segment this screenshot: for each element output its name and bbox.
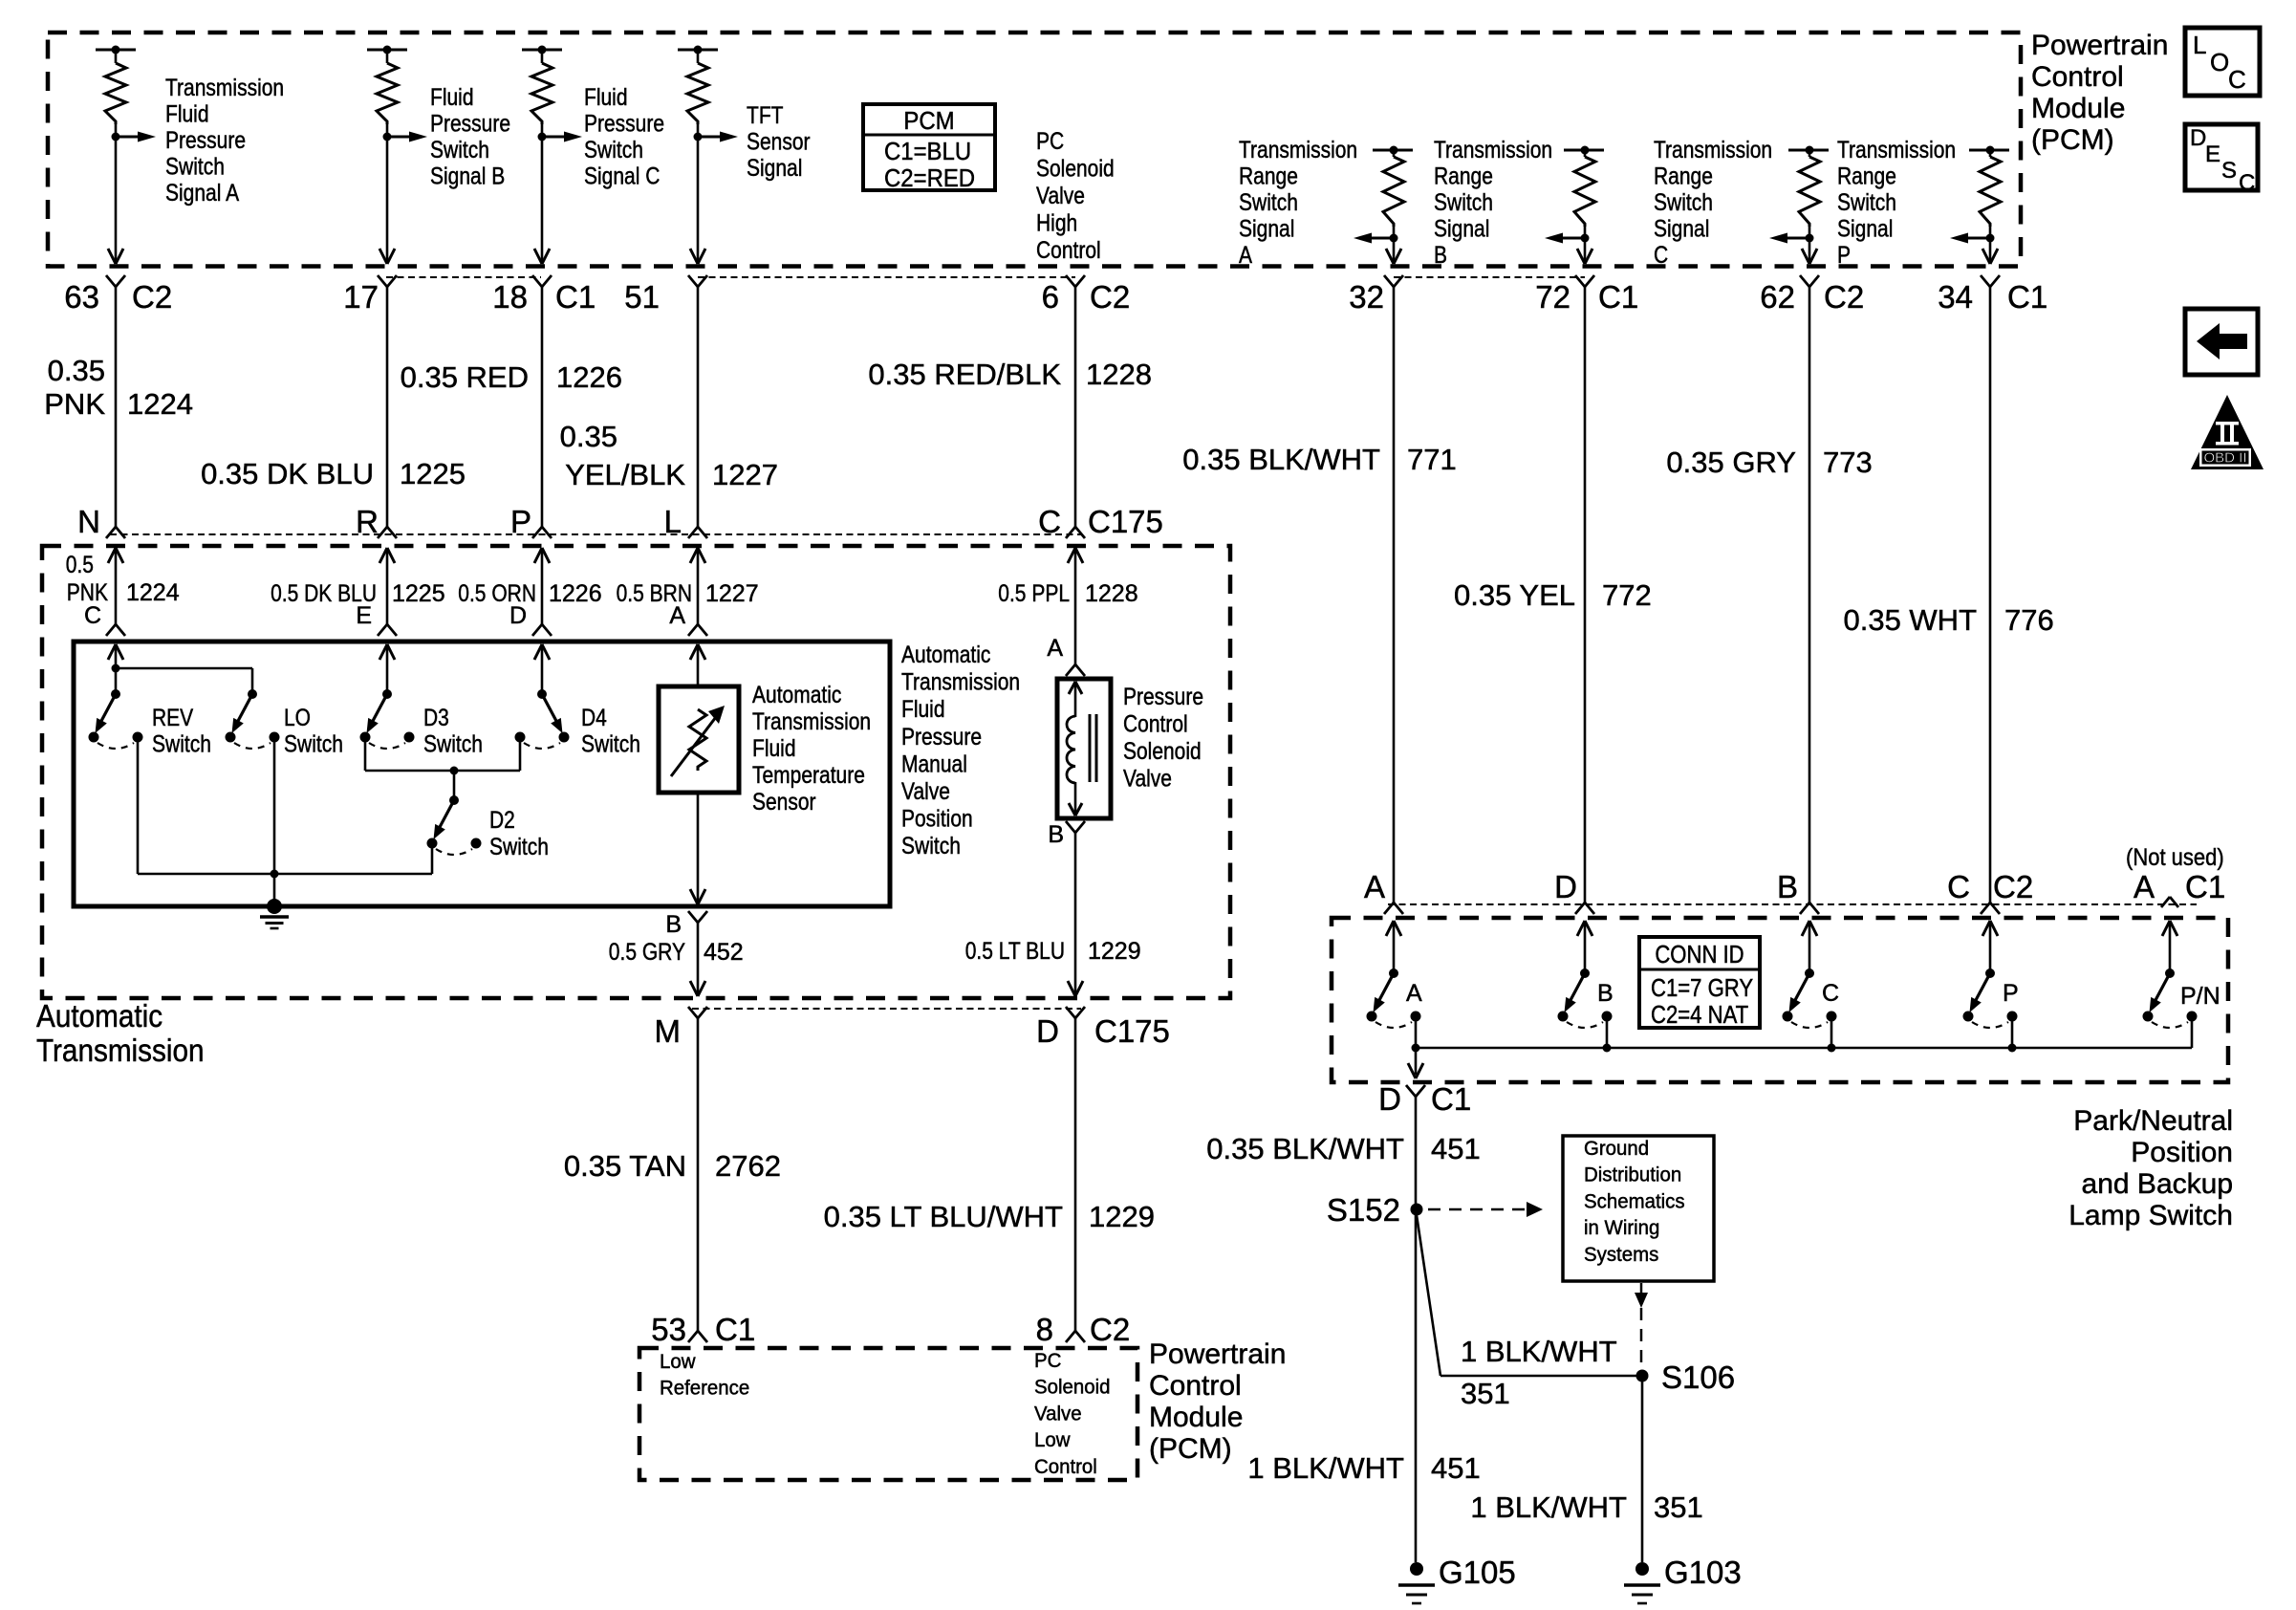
ground distribution schematics reference box <box>1563 1136 1714 1281</box>
pointer arrow to signal B label <box>387 136 412 139</box>
svg-text:63: 63 <box>64 279 99 315</box>
svg-text:1227: 1227 <box>712 458 778 491</box>
resistor R3 transmission fluid pressure switch signal C <box>522 49 562 52</box>
node junction wire9 <box>1986 234 1995 243</box>
wire 1225 into automatic transmission <box>379 548 387 563</box>
wire 776 PCM to park/neutral switch <box>1989 287 1992 903</box>
svg-text:Pressure: Pressure <box>430 111 510 138</box>
svg-text:D: D <box>509 602 527 629</box>
node junction wire6 <box>1390 234 1398 243</box>
pointer arrow left wire8 <box>1785 237 1809 240</box>
svg-text:Sensor: Sensor <box>752 789 816 816</box>
wire 1225 PCM to C175 <box>386 287 389 527</box>
svg-text:C: C <box>2228 65 2246 94</box>
svg-text:and Backup: and Backup <box>2082 1168 2233 1200</box>
svg-text:Fluid: Fluid <box>430 84 474 111</box>
svg-text:Switch: Switch <box>1654 189 1713 216</box>
wire TFT to pin B <box>697 793 700 903</box>
REV switch <box>111 689 120 699</box>
connector line park/neutral switch <box>1388 903 2197 905</box>
svg-text:1228: 1228 <box>1086 358 1152 391</box>
resistor R1 transmission fluid pressure switch signal A <box>96 49 136 52</box>
wire 1229 solenoid to C175 <box>1066 821 1075 833</box>
svg-text:PCM: PCM <box>903 106 954 135</box>
svg-text:Range: Range <box>1434 163 1493 190</box>
svg-text:C: C <box>84 602 101 629</box>
svg-text:34: 34 <box>1938 279 1973 315</box>
connector pin 18 C1 <box>532 275 542 287</box>
D2 switch <box>449 795 459 805</box>
svg-text:Switch: Switch <box>152 731 211 758</box>
wire switch C to bus <box>1830 1019 1833 1048</box>
wire into park/neutral switch B <box>1577 921 1585 936</box>
svg-text:0.35: 0.35 <box>560 420 617 453</box>
svg-text:A: A <box>669 602 685 629</box>
connector pin 32 <box>1384 275 1394 287</box>
wire 1224 inside PCM <box>115 137 118 264</box>
LO switch <box>248 689 257 699</box>
svg-text:C2: C2 <box>1993 869 2033 904</box>
node splice S152 <box>1411 1204 1423 1216</box>
svg-text:L: L <box>2193 31 2206 59</box>
svg-text:B: B <box>1434 242 1447 269</box>
PCM powertrain control module dashed box (top) <box>48 33 2021 267</box>
svg-text:E: E <box>356 602 372 629</box>
svg-text:Switch: Switch <box>584 137 643 163</box>
thermistor element TFT <box>689 709 706 771</box>
svg-text:Sensor: Sensor <box>747 129 811 156</box>
svg-text:Automatic: Automatic <box>752 682 841 708</box>
wire into park/neutral switch C <box>1802 921 1809 936</box>
svg-text:O: O <box>2210 48 2229 76</box>
svg-text:(PCM): (PCM) <box>2031 124 2114 156</box>
svg-text:Transmission: Transmission <box>165 75 284 101</box>
svg-text:1 BLK/WHT: 1 BLK/WHT <box>1247 1451 1404 1485</box>
wire 451 to S152 <box>1415 1097 1418 1562</box>
pointer arrow to signal C label <box>542 136 567 139</box>
park/neutral switch P <box>1985 968 1995 978</box>
resistor R5 transmission range switch signal A <box>1373 149 1413 152</box>
wire pin A into position switch box <box>690 644 698 660</box>
svg-text:Signal A: Signal A <box>165 180 239 207</box>
Automatic Transmission dashed box <box>42 546 1230 998</box>
solenoid core bars <box>1089 714 1092 782</box>
svg-text:P: P <box>1837 242 1851 269</box>
svg-text:REV: REV <box>152 705 193 731</box>
svg-text:Switch: Switch <box>901 833 961 859</box>
svg-text:Switch: Switch <box>423 731 483 758</box>
Park/Neutral Position switch dashed box <box>1332 918 2228 1082</box>
svg-text:Fluid: Fluid <box>901 696 945 723</box>
PCM powertrain control module dashed box (bottom) <box>639 1348 1137 1480</box>
svg-text:451: 451 <box>1431 1132 1481 1165</box>
svg-text:S106: S106 <box>1661 1360 1735 1395</box>
svg-text:Powertrain: Powertrain <box>1149 1338 1286 1370</box>
svg-text:Low: Low <box>660 1350 696 1373</box>
svg-text:N: N <box>77 504 100 539</box>
wire REV output <box>137 742 140 874</box>
wire into park/neutral switch A <box>1386 921 1394 936</box>
svg-text:Transmission: Transmission <box>1239 137 1357 163</box>
svg-text:1226: 1226 <box>549 580 602 607</box>
svg-text:C: C <box>1654 242 1668 269</box>
ground G105 <box>1410 1562 1423 1576</box>
svg-text:Pressure: Pressure <box>584 111 664 138</box>
svg-text:Module: Module <box>1149 1402 1243 1433</box>
svg-text:Control: Control <box>2031 61 2124 93</box>
resistor R6 transmission range switch signal B <box>1564 149 1604 152</box>
node ground bus junction <box>271 870 279 879</box>
svg-text:CONN ID: CONN ID <box>1655 940 1744 968</box>
svg-text:C: C <box>1947 869 1970 904</box>
svg-text:Solenoid: Solenoid <box>1034 1376 1111 1399</box>
svg-text:1224: 1224 <box>127 387 193 421</box>
svg-text:D: D <box>1554 869 1577 904</box>
svg-text:Automatic: Automatic <box>36 998 162 1033</box>
svg-text:Ground: Ground <box>1584 1137 1649 1160</box>
svg-text:C1: C1 <box>715 1312 755 1347</box>
pointer arrow left wire9 <box>1965 237 1990 240</box>
svg-text:B: B <box>1777 869 1798 904</box>
svg-text:Control: Control <box>1149 1370 1242 1402</box>
wire 773 PCM to park/neutral switch <box>1809 287 1811 903</box>
svg-text:Park/Neutral: Park/Neutral <box>2073 1105 2233 1137</box>
svg-text:0.35 TAN: 0.35 TAN <box>564 1149 686 1183</box>
svg-text:Switch: Switch <box>1239 189 1298 216</box>
svg-text:C2: C2 <box>132 279 172 315</box>
park/neutral switch B <box>1580 968 1590 978</box>
svg-text:(Not used): (Not used) <box>2126 844 2224 871</box>
svg-text:A: A <box>1239 242 1252 269</box>
wire 1227 PCM to C175 <box>697 287 700 527</box>
svg-text:D2: D2 <box>489 807 515 834</box>
svg-text:Systems: Systems <box>1584 1243 1658 1266</box>
svg-text:Switch: Switch <box>1837 189 1896 216</box>
wire S106 to G103 <box>1641 1376 1644 1562</box>
wire branch to LO switch <box>116 667 252 670</box>
svg-text:Transmission: Transmission <box>752 708 871 735</box>
node splice S106 <box>1636 1370 1649 1382</box>
svg-text:Signal: Signal <box>1837 216 1893 243</box>
node junction wire8 <box>1806 234 1814 243</box>
connector pin 6 C2 <box>1066 275 1075 287</box>
park/neutral switch A <box>1389 968 1398 978</box>
svg-text:Fluid: Fluid <box>752 735 796 762</box>
DESC icon box <box>2185 124 2258 190</box>
svg-text:C175: C175 <box>1094 1013 1170 1049</box>
svg-text:R: R <box>356 504 379 539</box>
svg-text:C175: C175 <box>1088 504 1163 539</box>
wire switch B to bus <box>1606 1019 1609 1048</box>
svg-text:0.35 DK BLU: 0.35 DK BLU <box>201 457 374 490</box>
svg-text:G105: G105 <box>1439 1555 1516 1590</box>
svg-text:Switch: Switch <box>1434 189 1493 216</box>
svg-text:1 BLK/WHT: 1 BLK/WHT <box>1470 1490 1627 1524</box>
svg-text:PC: PC <box>1034 1349 1061 1372</box>
svg-text:Valve: Valve <box>901 778 950 805</box>
svg-text:D4: D4 <box>581 705 607 731</box>
svg-text:D: D <box>1036 1013 1059 1049</box>
svg-text:0.35 GRY: 0.35 GRY <box>1666 446 1796 479</box>
CONN ID note box <box>1639 937 1760 1028</box>
svg-text:8: 8 <box>1036 1312 1053 1347</box>
node REV/LO branch <box>112 664 120 673</box>
svg-text:0.5: 0.5 <box>66 552 94 578</box>
svg-text:Control: Control <box>1034 1455 1097 1478</box>
svg-text:D: D <box>2190 125 2206 151</box>
wire D4 output <box>519 742 522 771</box>
svg-text:772: 772 <box>1602 578 1652 612</box>
svg-text:A: A <box>1047 635 1063 662</box>
svg-text:0.35: 0.35 <box>48 354 105 387</box>
wire 772 inside PCM <box>1584 238 1587 264</box>
svg-text:0.35 BLK/WHT: 0.35 BLK/WHT <box>1182 443 1380 476</box>
transmission fluid pressure manual valve position switch box <box>74 642 890 906</box>
node junction wire2 <box>383 133 392 141</box>
svg-text:1 BLK/WHT: 1 BLK/WHT <box>1461 1335 1617 1368</box>
pointer arrow left wire6 <box>1369 237 1394 240</box>
svg-text:Module: Module <box>2031 93 2125 124</box>
svg-text:YEL/BLK: YEL/BLK <box>565 458 685 491</box>
wire D2 output <box>431 848 434 874</box>
svg-text:1224: 1224 <box>126 579 180 606</box>
connector pin D C175 <box>1066 1007 1075 1018</box>
svg-text:C2=4 NAT: C2=4 NAT <box>1651 1000 1748 1029</box>
svg-text:1226: 1226 <box>556 360 622 394</box>
svg-text:Transmission: Transmission <box>1837 137 1956 163</box>
solenoid wire and arrows <box>1069 682 1075 694</box>
svg-text:1229: 1229 <box>1088 938 1141 965</box>
svg-text:Low: Low <box>1034 1428 1071 1451</box>
connector C175 line (upper) <box>110 533 1081 535</box>
connector line pins 51-6 <box>698 276 1075 278</box>
svg-text:Signal C: Signal C <box>584 163 660 190</box>
svg-text:0.35 BLK/WHT: 0.35 BLK/WHT <box>1206 1132 1404 1165</box>
resistor R7 transmission range switch signal C <box>1788 149 1829 152</box>
svg-text:0.5 GRY: 0.5 GRY <box>609 939 685 966</box>
wire 1226 into automatic transmission <box>534 548 542 563</box>
svg-text:C1=7 GRY: C1=7 GRY <box>1651 973 1753 1002</box>
svg-text:C: C <box>1038 504 1061 539</box>
svg-text:B: B <box>1597 980 1614 1007</box>
thermistor arrow <box>671 713 719 776</box>
svg-text:P/N: P/N <box>2180 983 2220 1010</box>
svg-text:PNK: PNK <box>44 387 105 421</box>
svg-text:Signal B: Signal B <box>430 163 505 190</box>
svg-text:0.35 RED/BLK: 0.35 RED/BLK <box>868 358 1061 391</box>
svg-text:452: 452 <box>704 939 744 966</box>
svg-text:Control: Control <box>1123 711 1188 738</box>
svg-text:Solenoid: Solenoid <box>1036 156 1115 183</box>
wire 772 PCM to park/neutral switch <box>1584 287 1587 903</box>
svg-text:Fluid: Fluid <box>584 84 628 111</box>
svg-text:C1: C1 <box>2007 279 2047 315</box>
svg-text:Switch: Switch <box>581 731 640 758</box>
connector pin 34 C1 <box>1981 275 1990 287</box>
svg-text:Transmission: Transmission <box>1434 137 1552 163</box>
node junction wire3 <box>538 133 547 141</box>
svg-text:B: B <box>665 911 682 938</box>
svg-text:Automatic: Automatic <box>901 642 990 668</box>
wire pin C into position switch box <box>108 644 116 660</box>
connector pin 62 C2 <box>1800 275 1809 287</box>
svg-text:451: 451 <box>1431 1451 1481 1485</box>
node bus junction P <box>2008 1044 2017 1053</box>
svg-text:Temperature: Temperature <box>752 762 865 789</box>
svg-text:(PCM): (PCM) <box>1149 1433 1232 1465</box>
wire S152 branch to S106 <box>1417 1215 1440 1376</box>
svg-text:62: 62 <box>1760 279 1795 315</box>
svg-text:C1: C1 <box>2185 869 2225 904</box>
node bus junction C <box>1828 1044 1836 1053</box>
svg-text:Transmission: Transmission <box>36 1033 205 1068</box>
svg-text:Signal: Signal <box>1239 216 1294 243</box>
svg-text:18: 18 <box>492 279 528 315</box>
unused pin chevron <box>2161 897 2170 907</box>
svg-text:0.35 YEL: 0.35 YEL <box>1454 578 1575 612</box>
svg-text:L: L <box>664 504 682 539</box>
wire 1228 into automatic transmission <box>1068 548 1075 563</box>
resistor R8 transmission range switch signal P <box>1969 149 2009 152</box>
svg-text:Transmission: Transmission <box>1654 137 1772 163</box>
svg-text:Reference: Reference <box>660 1377 749 1400</box>
svg-text:G103: G103 <box>1664 1555 1742 1590</box>
wire 776 inside PCM <box>1989 238 1992 264</box>
connector pin M at C175 <box>688 1007 698 1018</box>
node bus junction B <box>1603 1044 1612 1053</box>
svg-text:A: A <box>1364 869 1385 904</box>
svg-text:32: 32 <box>1349 279 1384 315</box>
PCM connector id note box <box>863 104 995 190</box>
svg-text:C2: C2 <box>1824 279 1864 315</box>
wire D2 feed <box>453 771 456 800</box>
svg-text:776: 776 <box>2004 603 2054 637</box>
svg-text:Position: Position <box>2131 1137 2233 1168</box>
svg-text:Signal: Signal <box>1434 216 1489 243</box>
node junction wire7 <box>1581 234 1590 243</box>
wire D3 output <box>364 742 367 771</box>
svg-text:17: 17 <box>343 279 379 315</box>
park/neutral switch C <box>1805 968 1814 978</box>
svg-text:0.5 LT BLU: 0.5 LT BLU <box>965 938 1065 965</box>
LOC icon box <box>2185 28 2260 96</box>
node bus junction A <box>1412 1044 1420 1053</box>
svg-text:E: E <box>2205 141 2220 167</box>
svg-text:C2: C2 <box>1090 1312 1130 1347</box>
svg-text:Manual: Manual <box>901 751 967 777</box>
svg-text:D3: D3 <box>423 705 449 731</box>
wire 1227 into automatic transmission <box>690 548 698 563</box>
svg-text:Pressure: Pressure <box>1123 684 1203 710</box>
svg-text:Valve: Valve <box>1123 766 1172 793</box>
svg-text:Range: Range <box>1837 163 1896 190</box>
svg-text:771: 771 <box>1407 443 1457 476</box>
wire 1225 inside PCM <box>386 137 389 264</box>
svg-text:0.35 RED: 0.35 RED <box>401 360 529 394</box>
back arrow icon box <box>2185 309 2258 375</box>
node junction wire4 <box>694 133 703 141</box>
svg-text:PC: PC <box>1036 128 1064 155</box>
wire 773 inside PCM <box>1809 238 1811 264</box>
svg-text:C1: C1 <box>555 279 596 315</box>
connector line pins 32-72 <box>1394 276 1585 278</box>
wire 2762 C175 to PCM <box>697 1018 700 1331</box>
svg-text:Valve: Valve <box>1036 183 1085 209</box>
svg-text:OBD II: OBD II <box>2203 450 2246 467</box>
wire into park/neutral switch P/N <box>2162 921 2170 936</box>
node junction wire1 <box>112 133 120 141</box>
node D2 feed junction <box>450 767 459 775</box>
svg-text:M: M <box>655 1013 682 1049</box>
connector pin 17 <box>378 275 387 287</box>
svg-text:0.5 PPL: 0.5 PPL <box>998 580 1070 607</box>
svg-text:0.35 WHT: 0.35 WHT <box>1843 603 1977 637</box>
svg-text:351: 351 <box>1654 1490 1703 1524</box>
svg-text:TFT: TFT <box>747 102 784 129</box>
svg-text:Fluid: Fluid <box>165 101 209 128</box>
wire switch P to bus <box>2011 1019 2014 1048</box>
wire to REV pivot <box>115 668 118 694</box>
pointer arrow to signal A label <box>116 136 141 139</box>
svg-text:72: 72 <box>1535 279 1570 315</box>
svg-text:1227: 1227 <box>705 580 759 607</box>
svg-text:A: A <box>1406 980 1422 1007</box>
wire pin D into position switch box <box>534 644 542 660</box>
svg-text:2762: 2762 <box>715 1149 781 1183</box>
TFT automatic transmission fluid temperature sensor box <box>659 686 739 793</box>
svg-text:6: 6 <box>1042 279 1059 315</box>
svg-text:Signal: Signal <box>1654 216 1709 243</box>
connector line pins 17-18 <box>386 276 541 278</box>
svg-text:Schematics: Schematics <box>1584 1189 1685 1212</box>
svg-text:C: C <box>2239 170 2255 196</box>
svg-text:Switch: Switch <box>430 137 489 163</box>
svg-text:C: C <box>1822 980 1839 1007</box>
svg-text:A: A <box>2134 869 2155 904</box>
svg-text:High: High <box>1036 210 1077 237</box>
pressure control solenoid valve box <box>1057 679 1111 818</box>
svg-text:773: 773 <box>1823 446 1873 479</box>
svg-text:Lamp Switch: Lamp Switch <box>2069 1200 2233 1231</box>
svg-text:Pressure: Pressure <box>165 127 246 154</box>
svg-text:1225: 1225 <box>400 457 466 490</box>
D3 switch <box>382 689 392 699</box>
svg-text:51: 51 <box>624 279 660 315</box>
resistor R4 TFT sensor signal <box>678 49 718 52</box>
svg-text:Range: Range <box>1654 163 1713 190</box>
svg-text:1229: 1229 <box>1089 1200 1155 1233</box>
svg-text:P: P <box>510 504 531 539</box>
dashed reference box to S106 <box>1640 1283 1643 1293</box>
svg-text:S: S <box>2221 158 2237 184</box>
wire 771 PCM to park/neutral switch <box>1393 287 1396 903</box>
OBD II icon <box>2191 395 2264 469</box>
svg-text:Signal: Signal <box>747 155 802 182</box>
D4 switch <box>537 689 547 699</box>
svg-text:C2=RED: C2=RED <box>884 163 975 192</box>
svg-text:Solenoid: Solenoid <box>1123 738 1202 765</box>
wire bus to pin D <box>1415 1048 1418 1075</box>
svg-text:Range: Range <box>1239 163 1298 190</box>
svg-text:P: P <box>2003 980 2019 1007</box>
connector pin 51 <box>688 275 698 287</box>
wire pin E into position switch box <box>379 644 387 660</box>
wire 1224 PCM to C175 <box>115 287 118 527</box>
svg-text:Switch: Switch <box>165 154 225 181</box>
svg-text:B: B <box>1048 821 1064 848</box>
svg-text:Control: Control <box>1036 237 1101 264</box>
wire 771 inside PCM <box>1393 238 1396 264</box>
